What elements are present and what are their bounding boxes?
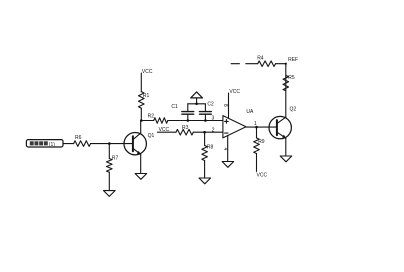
- svg-text:R4: R4: [257, 56, 264, 62]
- svg-text:VCC: VCC: [229, 89, 240, 95]
- svg-text:VCC: VCC: [142, 69, 153, 75]
- svg-text:R5: R5: [288, 75, 295, 81]
- svg-text:R9: R9: [258, 139, 265, 145]
- svg-text:REF: REF: [288, 57, 298, 63]
- svg-text:R3: R3: [182, 125, 189, 131]
- svg-text:VCC: VCC: [257, 172, 268, 178]
- svg-text:Q2: Q2: [290, 107, 297, 113]
- svg-text:4: 4: [222, 148, 228, 151]
- svg-text:(1): (1): [49, 142, 55, 148]
- svg-text:C2: C2: [207, 102, 214, 108]
- svg-text:R2: R2: [148, 113, 155, 119]
- svg-text:C1: C1: [171, 104, 178, 110]
- svg-text:3: 3: [212, 115, 215, 121]
- svg-text:R8: R8: [207, 144, 214, 150]
- svg-text:R7: R7: [112, 155, 119, 161]
- svg-text:R6: R6: [75, 135, 82, 141]
- svg-text:Q1: Q1: [148, 133, 155, 139]
- svg-text:2: 2: [212, 127, 215, 133]
- svg-text:UA: UA: [246, 109, 254, 115]
- svg-text:8: 8: [222, 104, 228, 107]
- svg-text:R1: R1: [143, 93, 150, 99]
- svg-text:VCC: VCC: [159, 127, 170, 133]
- svg-text:1: 1: [254, 121, 257, 127]
